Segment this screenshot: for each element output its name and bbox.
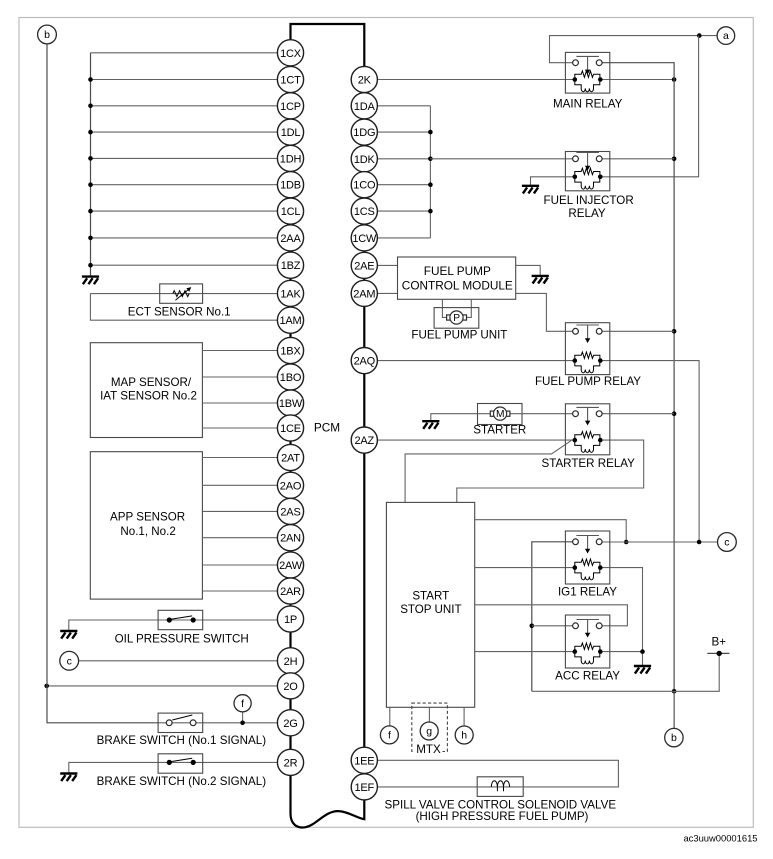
svg-text:1CW: 1CW	[352, 233, 377, 245]
wire MAIN RELAY coil right to vertical bus	[600, 79, 674, 81]
wire 1EE loop to spill valve	[378, 760, 619, 787]
svg-text:2AO: 2AO	[280, 480, 302, 492]
wire 2AQ to FUEL PUMP RELAY coil	[378, 360, 575, 362]
PCM pin 1AM	[277, 307, 303, 333]
svg-text:c: c	[724, 537, 729, 549]
connector f	[380, 726, 398, 744]
relay FUEL PUMP RELAY label	[535, 375, 641, 388]
PCM pin 1CO	[351, 172, 377, 198]
junction long vertical at starter relay switch	[672, 411, 677, 416]
svg-text:f: f	[241, 698, 244, 710]
relay ACC RELAY box	[565, 615, 609, 668]
PCM pin 1CL	[277, 198, 303, 224]
wire bundle to FUEL INJECTOR RELAY switch	[430, 158, 572, 160]
svg-text:2AT: 2AT	[281, 453, 300, 465]
wire start stop unit to IG1 RELAY switch	[475, 520, 627, 542]
wire 2AM to fuel pump control module	[378, 292, 398, 294]
svg-text:FUEL PUMP RELAY: FUEL PUMP RELAY	[535, 375, 641, 388]
B+ terminal	[707, 636, 729, 657]
junction B+ bus at ACC switch	[530, 624, 535, 629]
relay MAIN RELAY box	[565, 52, 609, 93]
label APP SENSOR	[110, 511, 185, 538]
PCM pin 2AM	[351, 280, 377, 306]
connector c	[718, 533, 737, 552]
svg-text:P: P	[453, 313, 460, 324]
svg-text:2AW: 2AW	[279, 560, 303, 572]
PCM pin 2AS	[277, 498, 303, 524]
relay MAIN RELAY label	[553, 98, 623, 111]
wire module to fuel pump unit left	[442, 299, 446, 317]
junction bundle bus at 1DG	[428, 130, 433, 135]
svg-text:ac3uuw00001615: ac3uuw00001615	[683, 832, 757, 843]
wire ACC RELAY switch right to start stop unit	[475, 605, 628, 626]
PCM pin 2AW	[277, 552, 303, 578]
wire APP sensor to 2AR	[202, 590, 290, 592]
svg-text:1CS: 1CS	[354, 206, 375, 218]
junction on ground bus at 1DH	[88, 156, 93, 161]
ground (IG1/ACC relay coils)	[634, 666, 651, 674]
svg-text:1DA: 1DA	[354, 101, 376, 113]
PCM pin 1CX	[277, 40, 303, 66]
svg-text:STARTER RELAY: STARTER RELAY	[541, 457, 635, 470]
b bus vertical from connector b	[47, 44, 158, 723]
FUEL PUMP CONTROL MODULE box	[398, 257, 516, 299]
label FUEL PUMP CONTROL MODULE	[402, 264, 513, 292]
svg-text:1CP: 1CP	[280, 101, 301, 113]
PCM pin 2H	[277, 648, 303, 674]
PCM pin 2R	[277, 749, 303, 775]
svg-text:PCM: PCM	[314, 420, 340, 434]
junction on ground bus at 1CP	[88, 104, 93, 109]
svg-text:1BX: 1BX	[280, 346, 301, 358]
svg-text:1BW: 1BW	[279, 398, 303, 410]
thermistor ECT SENSOR No.1 box	[160, 284, 203, 303]
switch BRAKE SWITCH No.2 box	[158, 754, 203, 773]
junction b bus at 2O	[44, 684, 49, 689]
svg-text:1DK: 1DK	[354, 154, 376, 166]
ground (brake switch No.2)	[60, 774, 77, 782]
PCM pin 2AN	[277, 525, 303, 551]
PCM pin 1DA	[351, 93, 377, 119]
wire STARTER RELAY coil right to start stop unit	[457, 440, 644, 502]
junction a-line and injector-coil feed	[697, 33, 702, 38]
junction on ground bus at 1BZ	[88, 263, 93, 268]
svg-text:ACC RELAY: ACC RELAY	[555, 670, 620, 683]
ground (fuel injector relay)	[522, 186, 539, 194]
PCM pin 2AO	[277, 472, 303, 498]
svg-text:1CT: 1CT	[280, 75, 301, 87]
PCM pin 2AQ	[351, 348, 377, 374]
svg-text:IG1 RELAY: IG1 RELAY	[558, 586, 617, 599]
relay IG1 RELAY switch	[573, 536, 603, 554]
relay MAIN RELAY switch	[573, 56, 603, 74]
wire FUEL INJECTOR RELAY coil left to ground	[531, 177, 575, 186]
connector b	[38, 25, 57, 44]
relay FUEL INJECTOR RELAY coil	[573, 168, 603, 189]
svg-text:No.1, No.2: No.1, No.2	[120, 525, 175, 538]
svg-text:1AK: 1AK	[280, 288, 301, 300]
relay FUEL INJECTOR RELAY switch	[573, 153, 603, 171]
junction ACC coil ground vertical	[640, 649, 645, 654]
svg-text:2K: 2K	[358, 75, 372, 87]
relay ACC RELAY switch	[573, 620, 603, 638]
PCM pin 1CT	[277, 66, 303, 92]
ground (fuel pump control module)	[532, 276, 549, 284]
wire IG1 RELAY switch row to connector c	[602, 541, 717, 543]
wire bottom bus to connector b	[673, 691, 675, 728]
bottom bus to B+ terminal	[532, 653, 719, 691]
wire 1CS to bundle bus	[378, 210, 431, 212]
PCM pin 1BW	[277, 390, 303, 416]
connector g	[420, 722, 438, 740]
wire APP sensor to 2AN	[202, 537, 290, 539]
wire APP sensor to 2AW	[202, 564, 290, 566]
relay STARTER RELAY coil	[573, 432, 603, 453]
brake switch No.2 contacts (closed)	[167, 758, 196, 765]
PCM outline left leg	[291, 53, 365, 828]
wire ACC RELAY coil right to ground	[600, 651, 642, 653]
svg-text:FUEL INJECTOR: FUEL INJECTOR	[544, 194, 634, 207]
svg-text:2H: 2H	[284, 656, 298, 668]
START STOP UNIT box	[386, 502, 474, 707]
relay IG1 RELAY label	[558, 586, 617, 599]
ground (oil pressure switch)	[60, 631, 77, 639]
wire STARTER RELAY switch right to vertical bus	[602, 413, 674, 415]
switch BRAKE SWITCH No.1 box	[158, 713, 203, 732]
junction long vertical at fuel pump relay switch	[672, 329, 677, 334]
wire 1CW to bundle bus	[378, 237, 431, 239]
wire 2K to MAIN RELAY coil	[378, 79, 575, 81]
PCM pin 1BO	[277, 364, 303, 390]
wire starter to STARTER RELAY switch	[522, 413, 573, 415]
svg-text:1CX: 1CX	[280, 48, 302, 60]
label MAP SENSOR	[100, 376, 197, 402]
connector b	[665, 728, 683, 746]
svg-text:1DB: 1DB	[280, 180, 301, 192]
svg-text:1DH: 1DH	[280, 153, 302, 165]
wire 1CX to ground bus	[91, 52, 291, 54]
svg-text:2O: 2O	[283, 681, 298, 693]
svg-text:f: f	[388, 730, 391, 742]
MTX dashed box	[412, 703, 448, 751]
wire module to FUEL PUMP RELAY switch	[516, 293, 573, 331]
wire MAIN RELAY switch right and long vertical bus to connector b	[602, 63, 674, 729]
svg-text:MAP SENSOR/: MAP SENSOR/	[111, 376, 192, 389]
PCM pin 2AR	[277, 578, 303, 604]
svg-text:2AN: 2AN	[280, 533, 301, 545]
connector c	[60, 651, 79, 670]
thermistor symbol	[173, 287, 192, 300]
svg-text:2AA: 2AA	[280, 233, 301, 245]
svg-text:1DG: 1DG	[353, 127, 375, 139]
wire IG1 RELAY coil left to start stop unit	[475, 567, 575, 569]
junction long vertical at fuel injector switch	[672, 157, 677, 162]
switch OIL PRESSURE SWITCH box	[158, 610, 203, 629]
ground (left sensor bus)	[82, 277, 99, 285]
junction long vertical at bottom bus	[672, 689, 677, 694]
left ground bus vertical	[90, 53, 92, 277]
connector f stub	[242, 711, 244, 723]
wire FUEL INJECTOR RELAY switch right to vertical bus	[602, 158, 674, 160]
oil pressure switch contacts	[167, 616, 196, 623]
wire connector a to MAIN RELAY switch	[550, 36, 717, 63]
svg-text:2AQ: 2AQ	[354, 356, 376, 368]
wire ACC RELAY switch left from B+ bus	[532, 625, 573, 627]
PCM pin 2AZ	[351, 427, 377, 453]
wire IG1 RELAY coil right to ground vertical	[600, 568, 642, 666]
solenoid coil symbol	[491, 781, 509, 792]
junction bundle bus at 1DK	[428, 157, 433, 162]
junction vertical bus at main relay coil	[672, 77, 677, 82]
relay ACC RELAY coil	[573, 643, 603, 664]
wire ACC RELAY coil left to start stop unit	[475, 651, 575, 653]
wire a-line down to fuel injector relay coil	[602, 36, 698, 177]
wire MAP sensor to 1BO	[202, 376, 290, 378]
motor starter M symbol	[478, 407, 523, 420]
PCM pin 2AT	[277, 444, 303, 470]
svg-text:2R: 2R	[284, 757, 298, 769]
junction bundle bus at 1CO	[428, 182, 433, 187]
PCM pin 2AE	[351, 252, 377, 278]
connector g stub from start stop unit	[428, 707, 430, 722]
wire 1AK to ECT sensor	[90, 293, 290, 295]
svg-text:2AE: 2AE	[354, 260, 374, 272]
relay IG1 RELAY box	[565, 531, 609, 584]
wire APP sensor to 2AT	[202, 457, 290, 459]
wire connector c to 2H	[79, 660, 291, 662]
PCM pin 1BZ	[277, 252, 303, 278]
wire 2AE to fuel pump control module	[378, 264, 398, 266]
wire module to ground	[516, 265, 541, 275]
PCM pin 1BX	[277, 337, 303, 363]
wire MAP sensor to 1BW	[202, 402, 290, 404]
wire 1CO to bundle bus	[378, 184, 431, 186]
wire 1DL to ground bus	[91, 131, 291, 133]
PCM pin 2O	[277, 673, 303, 699]
svg-text:1CE: 1CE	[280, 423, 301, 435]
wire 1CL to ground bus	[91, 210, 291, 212]
svg-text:1P: 1P	[284, 614, 297, 626]
wire APP sensor to 2AO	[202, 484, 290, 486]
wire 1DK to bundle bus	[378, 158, 431, 160]
wire IG1 RELAY switch left down to bottom bus	[532, 542, 573, 692]
relay MAIN RELAY coil	[573, 71, 603, 92]
svg-text:MAIN RELAY: MAIN RELAY	[553, 98, 623, 111]
svg-text:2AS: 2AS	[280, 506, 300, 518]
svg-text:b: b	[44, 29, 50, 41]
svg-text:c: c	[67, 655, 72, 667]
wire through spill valve box	[477, 786, 523, 788]
wire brake switch No.2 to ground	[69, 762, 291, 773]
label SPILL VALVE CONTROL SOLENOID VALVE	[385, 799, 617, 823]
PCM pin 1DL	[277, 119, 303, 145]
junction on ground bus at 2AA	[88, 236, 93, 241]
PCM pin 1DG	[351, 119, 377, 145]
PCM pin 1CE	[277, 415, 303, 441]
wire oil pressure switch to ground	[69, 620, 291, 631]
relay STARTER RELAY label	[541, 457, 635, 470]
wire starter to ground	[431, 414, 478, 421]
svg-text:BRAKE SWITCH (No.2 SIGNAL): BRAKE SWITCH (No.2 SIGNAL)	[97, 775, 267, 788]
PCM pin 2G	[277, 710, 303, 736]
relay FUEL PUMP RELAY coil	[573, 352, 603, 373]
APP SENSOR No.1, No.2 box	[90, 452, 202, 599]
svg-text:(HIGH PRESSURE FUEL PUMP): (HIGH PRESSURE FUEL PUMP)	[416, 810, 589, 823]
relay FUEL PUMP RELAY switch	[573, 325, 603, 343]
connector h stub from start stop unit	[463, 707, 465, 726]
wire 1BZ to ground bus	[91, 264, 291, 266]
junction on ground bus at 1DB	[88, 182, 93, 187]
svg-text:BRAKE SWITCH (No.1 SIGNAL): BRAKE SWITCH (No.1 SIGNAL)	[97, 734, 267, 747]
relay IG1 RELAY coil	[573, 559, 603, 580]
relay FUEL INJECTOR RELAY label	[544, 194, 634, 220]
svg-text:STARTER: STARTER	[473, 424, 526, 437]
svg-text:M: M	[496, 409, 505, 420]
svg-text:START: START	[412, 590, 449, 603]
wire 1DB to ground bus	[91, 184, 291, 186]
ground (starter)	[422, 421, 439, 429]
svg-text:1BZ: 1BZ	[281, 260, 301, 272]
wire APP sensor to 2AS	[202, 510, 290, 512]
PCM connector outline	[291, 24, 365, 747]
junction on ground bus at 1CL	[88, 209, 93, 214]
wire 1EF to spill valve	[378, 786, 478, 788]
label MTX	[415, 743, 443, 756]
svg-text:FUEL PUMP: FUEL PUMP	[424, 264, 491, 278]
wire brake switch No.1 to 2G	[158, 722, 290, 724]
svg-text:ECT SENSOR No.1: ECT SENSOR No.1	[128, 306, 231, 319]
bundle bus vertical	[429, 106, 431, 238]
PCM pin 1CW	[351, 225, 377, 251]
PCM pin 1DB	[277, 172, 303, 198]
PCM pin 1CS	[351, 198, 377, 224]
relay STARTER RELAY switch	[573, 407, 603, 425]
wire MAP sensor to 1BX	[202, 350, 290, 352]
relay STARTER RELAY box	[565, 404, 609, 455]
PCM pin 1CP	[277, 93, 303, 119]
PCM pin 2K	[351, 66, 377, 92]
junction bundle bus at 1CS	[428, 209, 433, 214]
svg-text:1DL: 1DL	[281, 127, 301, 139]
wire 2AZ to STARTER RELAY coil	[377, 439, 575, 441]
wire 1DH to ground bus	[91, 157, 291, 159]
junction at IG1 switch feed	[624, 540, 629, 545]
relay FUEL PUMP RELAY box	[565, 323, 609, 375]
svg-text:FUEL PUMP UNIT: FUEL PUMP UNIT	[411, 329, 507, 342]
MAP SENSOR / IAT SENSOR No.2 box	[90, 343, 202, 438]
wire 1CT to ground bus	[91, 79, 291, 81]
PCM pin 1P	[277, 606, 303, 632]
svg-text:a: a	[723, 30, 729, 42]
svg-text:IAT SENSOR No.2: IAT SENSOR No.2	[100, 389, 197, 402]
PCM pin 1DH	[277, 145, 303, 171]
wire MAP sensor to 1CE	[202, 427, 290, 429]
PCM pin 1EF	[351, 774, 377, 800]
brake switch No.1 contacts (open)	[166, 715, 196, 726]
svg-text:RELAY: RELAY	[568, 207, 605, 220]
PCM pin 1DK	[351, 146, 377, 172]
svg-text:1CO: 1CO	[353, 180, 376, 192]
svg-text:2AR: 2AR	[280, 586, 301, 598]
svg-text:1CL: 1CL	[281, 206, 301, 218]
svg-text:g: g	[426, 726, 432, 738]
wire start stop unit to starter relay coil (diagonal)	[405, 441, 571, 503]
connector f stub from start stop unit	[389, 707, 391, 726]
svg-text:1EE: 1EE	[354, 755, 374, 767]
svg-text:b: b	[671, 732, 677, 744]
wire 1DG to bundle bus	[378, 131, 431, 133]
wire FUEL PUMP RELAY coil right down to connector c row	[600, 361, 699, 542]
svg-text:2G: 2G	[283, 718, 297, 730]
wire 2AA to ground bus	[91, 237, 291, 239]
wire 1CP to ground bus	[91, 105, 291, 107]
relay ACC RELAY label	[555, 670, 620, 683]
PCM pin 2AA	[277, 225, 303, 251]
connector a	[717, 27, 735, 45]
svg-text:STOP UNIT: STOP UNIT	[400, 603, 461, 616]
wire ECT sensor loop to 1AM	[90, 294, 290, 321]
wire FUEL PUMP RELAY switch right to vertical bus	[602, 330, 674, 332]
svg-text:APP SENSOR: APP SENSOR	[110, 511, 185, 524]
PCM pin 1AK	[277, 280, 303, 306]
connector f	[234, 695, 251, 712]
FUEL PUMP UNIT box	[434, 308, 479, 329]
STARTER box	[478, 404, 523, 425]
junction on ground bus at 1DL	[88, 130, 93, 135]
relay FUEL INJECTOR RELAY box	[565, 152, 609, 191]
svg-text:2AM: 2AM	[353, 288, 375, 300]
wire 1DA to bundle bus	[378, 105, 431, 107]
PCM pin 1EE	[351, 747, 377, 773]
motor fuel pump P symbol	[447, 311, 467, 324]
svg-text:1AM: 1AM	[279, 315, 301, 327]
svg-text:2AZ: 2AZ	[355, 435, 375, 447]
wire module to fuel pump unit right	[466, 299, 471, 317]
svg-text:h: h	[461, 730, 467, 742]
svg-text:OIL PRESSURE SWITCH: OIL PRESSURE SWITCH	[115, 633, 249, 646]
svg-text:CONTROL MODULE: CONTROL MODULE	[402, 279, 513, 293]
svg-text:1EF: 1EF	[355, 782, 375, 794]
svg-text:1BO: 1BO	[280, 372, 302, 384]
junction on ground bus at 1CT	[88, 77, 93, 82]
junction at f stub	[240, 721, 245, 726]
junction c row and fuel pump relay coil vertical	[697, 540, 702, 545]
solenoid SPILL VALVE box	[477, 777, 523, 797]
svg-text:MTX: MTX	[416, 743, 441, 756]
svg-text:B+: B+	[712, 636, 727, 649]
label START STOP UNIT	[400, 590, 461, 616]
wire 2O to b bus	[47, 685, 291, 687]
connector h	[455, 726, 473, 744]
